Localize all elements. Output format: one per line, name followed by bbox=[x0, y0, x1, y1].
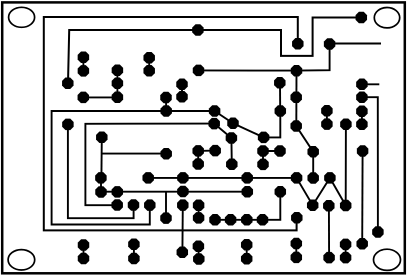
wire pad 83,97 to pad 117,97 bbox=[83, 96, 117, 98]
pad P1 297,178 bbox=[291, 172, 302, 183]
wire L4: from pad B left along y124-119, down x85.5, right to pad d bbox=[85, 124, 214, 206]
pad 182,97 bbox=[176, 91, 187, 102]
pad 182,84 bbox=[176, 79, 187, 90]
wire stub 101,178-101,192 bbox=[100, 178, 102, 192]
pad 362,84 bbox=[356, 79, 367, 90]
pad 280,111 bbox=[275, 105, 286, 116]
pad D 231,138 bbox=[226, 132, 237, 143]
wire stub 362,111-362,124 bbox=[361, 111, 363, 124]
pad 134,258 bbox=[128, 253, 139, 264]
pad 330,44 bbox=[324, 38, 335, 49]
pad 345.6,258 bbox=[340, 252, 351, 263]
pad 83,245 bbox=[78, 239, 89, 250]
pad A 215,111 bbox=[209, 105, 220, 116]
wire stub bottom pair x296 bbox=[295, 244, 297, 258]
pad 83,57 bbox=[78, 51, 89, 62]
wire L3: pad 68,124 down, right, up to pad e bbox=[68, 124, 134, 218]
wire stub bottom pair x198 bbox=[197, 246, 199, 259]
mounting hole bottom left bbox=[8, 250, 35, 270]
pad 215,151 bbox=[209, 145, 220, 156]
wire stub bottom pair x134 bbox=[133, 244, 135, 258]
pad 247,192 bbox=[242, 186, 253, 197]
wire vertical 296 down bbox=[295, 71, 297, 126]
wire stub bottom pair x247 bbox=[246, 245, 248, 259]
pad 280,151 bbox=[274, 145, 285, 156]
wire T2: from pad 361,17 left, down, left, up, along y=30 to x=68 down to pad bbox=[68, 18, 361, 84]
wire pad 263,151 to pad 280,151 bbox=[263, 150, 280, 152]
pad 362,244 bbox=[356, 238, 367, 249]
pad 363,151 bbox=[357, 145, 368, 156]
pad 183,205 bbox=[177, 199, 188, 210]
pad P6 346,205 bbox=[340, 200, 351, 211]
pad 263,164 bbox=[257, 159, 268, 170]
pad 345.6,244 bbox=[340, 239, 351, 250]
pad 247,259 bbox=[241, 253, 252, 264]
wire y192 line bbox=[101, 191, 247, 193]
pad 83,258 bbox=[78, 253, 89, 264]
pad 183,192 bbox=[177, 186, 188, 197]
pad 297,218 bbox=[291, 212, 302, 223]
pad 198.6,205 bbox=[193, 200, 204, 211]
wire stub bottom pair x345.6 bbox=[345, 244, 347, 257]
wire riser pad 183,205 down to pad 182,252 bbox=[181, 205, 183, 252]
pad 83,97 bbox=[78, 92, 89, 103]
pad 247,178 bbox=[241, 172, 252, 183]
wire riser P5 to bottom pad bbox=[328, 206, 330, 258]
pad d 117,205 bbox=[111, 199, 122, 210]
pad 280,192 bbox=[275, 186, 286, 197]
pad 166,97 bbox=[160, 92, 171, 103]
wire riser pad 363,151 to pad 362,244 bbox=[361, 151, 363, 244]
pad 297,44 bbox=[292, 38, 303, 49]
pad 327,111 bbox=[321, 105, 332, 116]
pad f 150,205 bbox=[144, 199, 155, 210]
pad 296,244 bbox=[291, 238, 302, 249]
pad 198,246 bbox=[193, 241, 204, 252]
pad 232,164 bbox=[226, 159, 237, 170]
pad B 214,124 bbox=[208, 118, 219, 129]
pad 262,220 bbox=[257, 214, 268, 225]
wire y69: pad 198 to corner 330, up to pad 330,44, right stub bbox=[199, 44, 330, 71]
mounting hole top left bbox=[9, 7, 35, 27]
pad 280,83 bbox=[274, 77, 285, 88]
pad 329,258 bbox=[323, 252, 334, 263]
pad 247,220 bbox=[241, 214, 252, 225]
pad 166,111 bbox=[160, 105, 171, 116]
pad P3 330,178 bbox=[324, 172, 335, 183]
pad 117,192 bbox=[112, 186, 123, 197]
wire branch y153.6 to pad 166,154 bbox=[102, 153, 167, 155]
pad 101,178 bbox=[95, 172, 106, 183]
wire diagonal 296,126 to 313,152 bbox=[296, 126, 313, 178]
mounting hole top right bbox=[374, 8, 399, 28]
wire pad 280,192 down, left to pad row y220 bbox=[215, 192, 280, 220]
wire L2: from pad A left, down, right to pad f bbox=[52, 111, 215, 225]
wire stub 263,151-263,164 bbox=[262, 151, 264, 164]
pad 198,164 bbox=[192, 158, 203, 169]
pad 149,58 bbox=[143, 52, 154, 63]
pad P5 329,206 bbox=[323, 200, 334, 211]
pad 247,245 bbox=[241, 239, 252, 250]
wire diagonal B-D and riser to pad 232,164 bbox=[214, 124, 232, 165]
pad 313,152 bbox=[307, 146, 318, 157]
pad 362,111 bbox=[356, 105, 367, 116]
pad 198.6,218 bbox=[193, 212, 204, 223]
wire stub 166,97-166,111 bbox=[165, 98, 167, 112]
pad P4 313,205 bbox=[307, 199, 318, 210]
pad 117,83 bbox=[112, 78, 123, 89]
pad 198,30 bbox=[192, 24, 203, 35]
pad 68,83 bbox=[62, 77, 73, 88]
wire stub pair 83,57-83,71 bbox=[82, 57, 84, 71]
pad 296,97 bbox=[290, 91, 301, 102]
pad e 133,205 bbox=[128, 199, 139, 210]
wire pad 362,97 right and down to pad 378,232 bbox=[362, 97, 378, 232]
pad 199,259 bbox=[193, 253, 204, 264]
pad 296,126 bbox=[290, 120, 301, 131]
pad 362,97 bbox=[356, 91, 367, 102]
pad 231,220 bbox=[225, 214, 236, 225]
pad 327,124 bbox=[321, 118, 332, 129]
pad 296,70 bbox=[291, 65, 302, 76]
pad 83,71 bbox=[78, 65, 89, 76]
pad P2 313,178 bbox=[307, 172, 318, 183]
pad 263,151 bbox=[257, 145, 268, 156]
pad 117,97 bbox=[112, 92, 123, 103]
wire pad 362,84 right stub bbox=[362, 83, 379, 85]
wire stubs column 117 bbox=[116, 70, 118, 97]
pad 117,70 bbox=[112, 64, 123, 75]
pad 296,257 bbox=[291, 252, 302, 263]
wire vertical pad 102,137 to pad 101,178 bbox=[100, 137, 102, 178]
wire diagonals A-C-E then up to pad F bbox=[215, 111, 281, 137]
pad C 233,123 bbox=[227, 118, 238, 129]
wire stub 198.6,205-198.6,218 bbox=[198, 205, 200, 218]
pad 362,124 bbox=[356, 119, 367, 130]
mounting hole bottom right bbox=[374, 249, 401, 270]
wire stub pads 280,83-280,111 bbox=[279, 83, 281, 111]
pad 149,71 bbox=[143, 65, 154, 76]
pad 166,218 bbox=[160, 212, 171, 223]
pad 101,192 bbox=[95, 186, 106, 197]
pad 134,244 bbox=[128, 238, 139, 249]
wire stub 198,151-198,164 bbox=[197, 151, 199, 164]
wire stub bottom pair x83 bbox=[83, 245, 85, 259]
wire pad 198,151 to pad 215,151 bbox=[198, 150, 215, 152]
pad 346,124 bbox=[340, 119, 351, 130]
wire stub right of pad 330,44 bbox=[330, 43, 381, 45]
pad 198,151 bbox=[192, 145, 203, 156]
wire stub 182,84-182,97 bbox=[181, 84, 183, 97]
wire stub pair 149,58-149,71 bbox=[148, 58, 150, 71]
wire branch down to pad 166,218 bbox=[165, 192, 167, 218]
pad 378,232 bbox=[372, 226, 383, 237]
pad H 183,178 bbox=[177, 172, 188, 183]
pad 166,154 bbox=[160, 148, 171, 159]
wire bus T1: pad top right, across top, down left side, along bottom to pad bbox=[44, 17, 298, 230]
pad 198,70 bbox=[193, 65, 204, 76]
pad 68,124 bbox=[62, 119, 73, 130]
pad E 264,137 bbox=[258, 132, 269, 143]
pad 215,220 bbox=[209, 214, 220, 225]
wire stub 327,111-327,124 bbox=[326, 111, 328, 124]
pad G 148,178 bbox=[142, 172, 153, 183]
pad 182,252 bbox=[177, 246, 188, 257]
wire net y178 with W zigzag bbox=[148, 124, 346, 205]
pad 102,137 bbox=[96, 132, 107, 143]
pad 361,17 bbox=[356, 12, 367, 23]
